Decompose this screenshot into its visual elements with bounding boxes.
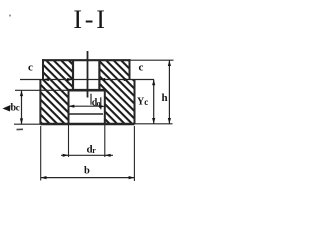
hatched left flange — [40, 60, 73, 124]
bottom extension right — [135, 123, 173, 125]
speck — [9, 14, 11, 16]
hc top extension line — [15, 89, 69, 91]
hatched right flange — [99, 60, 134, 124]
svg-text:b: b — [84, 165, 90, 176]
cavity left wall + extension to dr — [68, 90, 70, 124]
slot right wall — [98, 60, 100, 90]
bc dimension line — [21, 90, 23, 124]
svg-text:c: c — [144, 97, 148, 107]
h dimension line — [168, 60, 170, 124]
top edge — [42, 59, 131, 61]
arrows: c right dim — [99, 78, 105, 81]
artifact tick below bc arrow — [17, 128, 24, 130]
svg-text:c: c — [16, 103, 20, 113]
slot left wall — [72, 60, 74, 90]
svg-text:c: c — [139, 61, 144, 73]
top extension right — [131, 59, 174, 61]
svg-text:c: c — [28, 61, 33, 73]
upper-right edge — [129, 59, 131, 79]
arrows: Yc dim — [152, 80, 155, 86]
upper-left edge — [42, 59, 44, 79]
svg-text:r: r — [92, 146, 96, 155]
arrows: h dim — [168, 60, 171, 66]
lower-right edge — [134, 80, 136, 125]
labels — [11, 61, 168, 176]
do dimension line — [69, 105, 100, 107]
lower-left edge — [39, 80, 41, 125]
leader blob near bc — [3, 105, 11, 112]
inner line — [69, 113, 104, 115]
arrows: b dim — [41, 176, 47, 179]
bottom extension left — [14, 123, 40, 125]
do left extension — [90, 94, 92, 105]
arrows: dr dim (outside pointing in) — [63, 154, 69, 157]
dr dimension line — [61, 154, 113, 156]
cavity top line — [69, 89, 105, 92]
do right extension — [100, 97, 102, 109]
bottom edge — [40, 123, 134, 125]
b extension right — [133, 126, 135, 181]
axis line — [87, 51, 89, 98]
c dimension line across — [20, 79, 154, 81]
b extension left — [40, 126, 42, 181]
svg-text:I-I: I-I — [73, 5, 107, 34]
svg-text:h: h — [161, 92, 167, 104]
arrows: c left dim — [43, 78, 49, 81]
svg-text:o: o — [97, 99, 101, 108]
arrows: bc dim — [20, 90, 23, 96]
arrows: do dim — [69, 105, 75, 108]
b dimension line — [41, 177, 135, 179]
Yc dimension line — [153, 80, 155, 124]
cavity right wall + extension to dr — [104, 90, 106, 124]
